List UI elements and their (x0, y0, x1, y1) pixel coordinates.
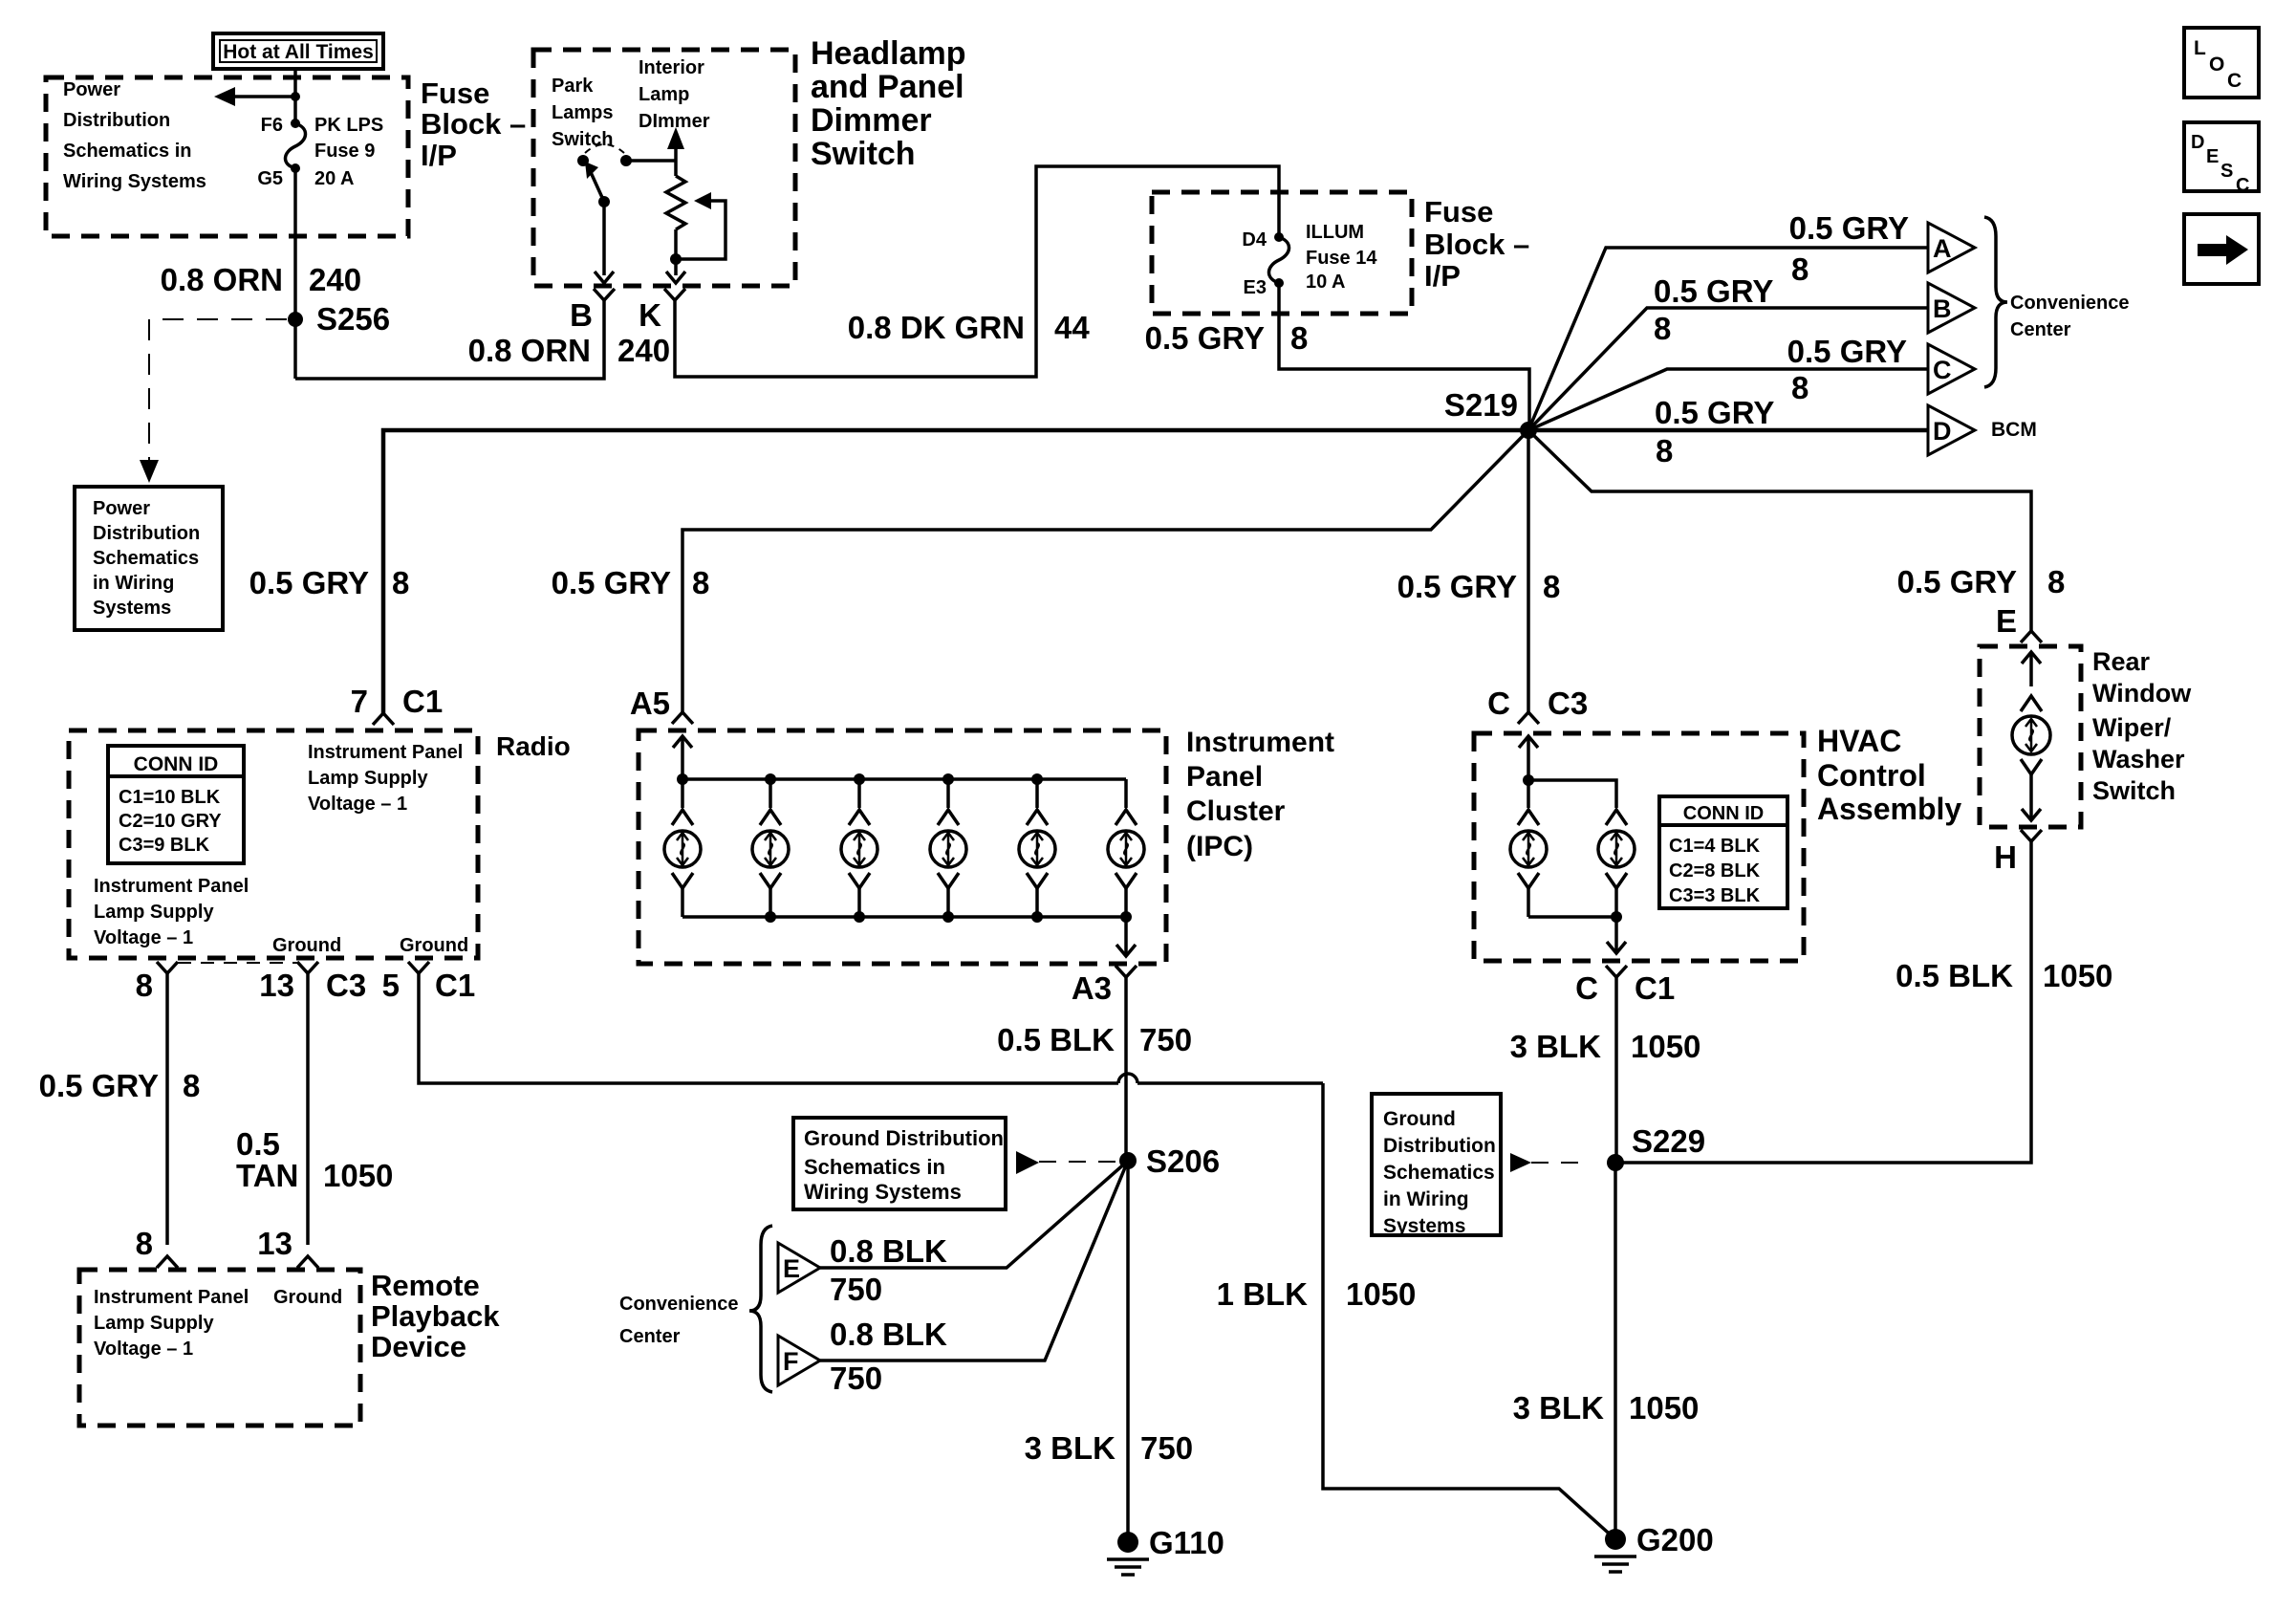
svg-text:Schematics in: Schematics in (63, 141, 192, 162)
svg-text:10 A: 10 A (1306, 272, 1346, 293)
svg-text:D4: D4 (1242, 229, 1267, 250)
svg-text:F: F (783, 1347, 799, 1376)
svg-text:S206: S206 (1146, 1143, 1220, 1179)
svg-text:13: 13 (259, 968, 294, 1003)
pin E chevron (2021, 631, 2042, 642)
svg-text:20 A: 20 A (314, 168, 355, 189)
wire: S219 to IPC A5 (682, 430, 1528, 712)
svg-text:Remote: Remote (371, 1269, 480, 1302)
svg-text:8: 8 (1654, 311, 1671, 346)
wire: S206 down to G110 (1126, 1161, 1130, 1542)
svg-text:I/P: I/P (1424, 259, 1461, 293)
svg-text:L: L (2194, 37, 2206, 59)
svg-text:C1: C1 (435, 968, 475, 1003)
svg-text:750: 750 (830, 1361, 882, 1396)
svg-text:750: 750 (1140, 1430, 1193, 1466)
fuse ILLUM Fuse 14 10A (1274, 232, 1284, 242)
svg-text:DImmer: DImmer (639, 111, 710, 132)
svg-text:B: B (1933, 294, 1952, 323)
svg-text:G110: G110 (1149, 1525, 1224, 1560)
conn id table (radio) (108, 746, 244, 863)
svg-text:C: C (1933, 356, 1952, 384)
IPC lamp 4 (930, 779, 966, 917)
svg-text:Instrument Panel: Instrument Panel (94, 1287, 249, 1308)
svg-text:Assembly: Assembly (1817, 792, 1961, 826)
wire: H down and left to S229 (1616, 841, 2031, 1163)
wire: radio pin 13 down to remote playback 13 (306, 973, 310, 1245)
dashed reference arrow from S256 to power distribution box (149, 318, 287, 320)
svg-text:PK LPS: PK LPS (314, 115, 383, 136)
component title: Rear Window Wiper/Washer Switch (2092, 647, 2192, 805)
svg-text:and Panel: and Panel (811, 69, 964, 105)
svg-text:D: D (1933, 417, 1952, 446)
svg-text:Systems: Systems (1383, 1215, 1465, 1237)
svg-text:1 BLK: 1 BLK (1217, 1276, 1309, 1312)
potentiometer: interior lamp dimmer (667, 127, 684, 149)
wire: E to S206 (820, 1161, 1128, 1268)
svg-text:8: 8 (1656, 433, 1673, 468)
svg-text:Systems: Systems (93, 598, 171, 619)
wire: park lamps switch down to B (602, 202, 606, 275)
bottom tie bar (1528, 915, 1616, 919)
connector C triangle (1928, 344, 1975, 394)
LOC box (2184, 28, 2259, 98)
svg-text:E3: E3 (1244, 277, 1267, 298)
svg-text:0.5 GRY: 0.5 GRY (1397, 569, 1517, 604)
pin B chevron (594, 289, 615, 300)
svg-text:240: 240 (309, 262, 361, 297)
svg-text:S219: S219 (1444, 387, 1518, 423)
svg-text:0.5 GRY: 0.5 GRY (1654, 273, 1773, 309)
IPC lamp 1 (664, 779, 701, 917)
svg-text:8: 8 (1791, 370, 1809, 405)
rear wiper lamp (2012, 696, 2050, 786)
svg-text:ILLUM: ILLUM (1306, 222, 1364, 243)
svg-text:8: 8 (392, 565, 409, 600)
svg-text:HVAC: HVAC (1817, 724, 1901, 758)
svg-text:C: C (2236, 175, 2249, 196)
splice node S229 (1607, 1154, 1624, 1171)
svg-text:Instrument Panel: Instrument Panel (94, 876, 249, 897)
svg-text:Fuse: Fuse (1424, 195, 1493, 229)
svg-text:8: 8 (183, 1068, 200, 1103)
dashed reference arrow to S206 (1016, 1151, 1039, 1174)
svg-text:240: 240 (617, 333, 670, 368)
value label: PK LPS Fuse 9 20 A (314, 115, 383, 189)
pin H chevron below box (2021, 830, 2042, 841)
svg-text:TAN: TAN (236, 1158, 298, 1193)
svg-text:0.8 ORN: 0.8 ORN (468, 333, 591, 368)
wire: S219 to connector B (1528, 308, 1928, 430)
svg-text:CONN ID: CONN ID (134, 753, 219, 775)
svg-text:F6: F6 (261, 115, 283, 136)
wire: dimmer down to K (674, 259, 678, 275)
IPC lamp 6 (1108, 779, 1144, 917)
svg-text:Radio: Radio (496, 731, 571, 761)
label: Interior Lamp Dimmer (639, 57, 710, 132)
svg-text:0.5: 0.5 (236, 1126, 280, 1162)
svg-text:C1: C1 (1635, 970, 1675, 1006)
ground G200 (1594, 1522, 1714, 1572)
svg-text:Wiring Systems: Wiring Systems (63, 171, 206, 192)
component box: rear window wiper/washer switch (1980, 646, 2081, 827)
svg-text:G5: G5 (257, 168, 283, 189)
svg-text:Cluster: Cluster (1186, 795, 1286, 827)
svg-text:Schematics: Schematics (1383, 1162, 1495, 1184)
svg-text:Voltage – 1: Voltage – 1 (94, 1339, 193, 1360)
svg-text:Voltage – 1: Voltage – 1 (94, 927, 193, 948)
svg-text:in Wiring: in Wiring (1383, 1188, 1469, 1210)
svg-text:Lamp Supply: Lamp Supply (94, 902, 214, 923)
wire: radio pin 5 ground to S206 trunk (419, 973, 1118, 1083)
exit arrow down inside IPC (1124, 917, 1128, 954)
wire: Hot at All Times feed down into fuse block (293, 69, 297, 123)
svg-text:0.5 GRY: 0.5 GRY (249, 565, 369, 600)
component box: HVAC control assembly (1474, 733, 1804, 961)
svg-text:0.8 BLK: 0.8 BLK (830, 1233, 947, 1269)
svg-text:0.5 GRY: 0.5 GRY (1145, 320, 1265, 356)
label: Instrument Panel Lamp Supply Voltage - 1 / Ground (94, 1287, 342, 1360)
svg-text:E: E (2206, 146, 2219, 167)
svg-text:S229: S229 (1632, 1123, 1705, 1159)
svg-text:8: 8 (692, 565, 709, 600)
value label: ILLUM Fuse 14 10 A (1306, 222, 1377, 293)
svg-text:0.8 DK GRN: 0.8 DK GRN (848, 310, 1025, 345)
svg-text:CONN ID: CONN ID (1683, 803, 1764, 824)
pin A5 chevron into IPC (672, 712, 693, 724)
connector D triangle (1928, 405, 1975, 455)
svg-text:in Wiring: in Wiring (93, 573, 174, 594)
wire: fuse E3 down to S219 (1279, 283, 1529, 430)
svg-text:750: 750 (1139, 1022, 1192, 1057)
fuse block I/P dashed box (left) (46, 77, 408, 236)
svg-text:Distribution: Distribution (93, 523, 200, 544)
component box: fuse block I/P (1152, 192, 1412, 314)
svg-text:0.5 BLK: 0.5 BLK (1895, 958, 2013, 993)
svg-text:O: O (2209, 54, 2224, 76)
svg-text:Window: Window (2092, 679, 2192, 708)
svg-text:S256: S256 (316, 301, 390, 337)
junction dot (1523, 774, 1534, 786)
bus junction dots (677, 773, 688, 785)
svg-text:Distribution: Distribution (63, 110, 170, 131)
connector E triangle (convenience center) (778, 1243, 820, 1293)
wire: radio pin 8 down to remote playback 8 (165, 973, 169, 1245)
wire: 1 BLK 1050 trunk to G200 (1323, 1083, 1615, 1539)
svg-text:3 BLK: 3 BLK (1025, 1430, 1116, 1466)
svg-text:Voltage – 1: Voltage – 1 (308, 794, 407, 815)
svg-text:8: 8 (136, 1226, 153, 1261)
pin K chevron (664, 289, 685, 300)
branch to right lamp (1528, 780, 1616, 808)
svg-text:Fuse: Fuse (421, 76, 489, 110)
svg-text:G200: G200 (1636, 1522, 1714, 1557)
IPC lamp 5 (1019, 779, 1055, 917)
svg-text:C2=10 GRY: C2=10 GRY (119, 811, 222, 832)
svg-text:C: C (1487, 686, 1510, 721)
component box: remote playback device (79, 1270, 360, 1426)
component title: Instrument Panel Cluster (IPC) (1186, 727, 1334, 862)
label: Instrument Panel Lamp Supply Voltage - 1 (pin 7) (308, 742, 463, 815)
svg-text:I/P: I/P (421, 139, 457, 172)
entry arrow up inside IPC (681, 738, 684, 779)
IPC lamp 3 (841, 779, 877, 917)
svg-text:Switch: Switch (811, 136, 916, 172)
wire: HVAC C1 down to S229 (1614, 977, 1618, 1163)
svg-text:C3=9 BLK: C3=9 BLK (119, 835, 210, 856)
pin 5 C1 chevron below radio (408, 962, 429, 973)
svg-text:Ground: Ground (272, 935, 341, 956)
svg-text:Block –: Block – (1424, 228, 1529, 261)
svg-text:Ground: Ground (400, 935, 468, 956)
svg-text:Schematics in: Schematics in (804, 1155, 945, 1179)
svg-text:C3: C3 (326, 968, 366, 1003)
wire: S219 to connector A (1528, 248, 1928, 430)
splice node S256 (288, 312, 303, 327)
svg-text:0.5 GRY: 0.5 GRY (1787, 334, 1907, 369)
svg-text:Power: Power (93, 498, 150, 519)
switch: park lamps switch blade (577, 155, 589, 166)
svg-text:Ground Distribution: Ground Distribution (804, 1126, 1004, 1150)
component box: radio (69, 730, 478, 958)
svg-text:Block –: Block – (421, 107, 526, 141)
wire: K to ILLUM fuse D4 (675, 166, 1279, 377)
DESC box (2184, 122, 2259, 196)
svg-text:S: S (2220, 161, 2233, 182)
svg-text:Convenience: Convenience (619, 1294, 738, 1315)
wire: S219 to connector D (1528, 428, 1928, 433)
svg-text:1050: 1050 (1629, 1390, 1699, 1426)
exit arrow down inside box (2029, 786, 2033, 818)
component box: headlamp dimmer switch (533, 50, 795, 286)
svg-text:Ground: Ground (273, 1287, 342, 1308)
pin 13 C3 chevron below radio (297, 962, 318, 973)
entry arrow up inside HVAC (1527, 738, 1530, 780)
svg-text:E: E (783, 1254, 800, 1283)
svg-text:8: 8 (1543, 569, 1560, 604)
fuse F9 PK LPS 20A (291, 119, 300, 128)
svg-text:Panel: Panel (1186, 761, 1263, 793)
component title: Headlamp and Panel Dimmer Switch (811, 35, 966, 172)
svg-text:C1: C1 (402, 684, 443, 719)
wire: S229 down to G200 (1614, 1163, 1617, 1539)
wire: A3 down to S206 (1124, 977, 1128, 1161)
HVAC lamp 2 (1598, 810, 1635, 917)
label box "Hot at All Times" (213, 33, 383, 69)
svg-text:3 BLK: 3 BLK (1513, 1390, 1605, 1426)
svg-text:Fuse 14: Fuse 14 (1306, 248, 1377, 269)
svg-text:Control: Control (1817, 758, 1926, 793)
svg-text:E: E (1996, 603, 2017, 639)
svg-text:Dimmer: Dimmer (811, 102, 932, 139)
entry arrow up inside box (2029, 654, 2033, 686)
brace: convenience center group (left) (749, 1226, 772, 1392)
pin C C3 chevron into HVAC (1518, 712, 1539, 724)
component box: instrument panel cluster (639, 730, 1166, 964)
svg-text:0.8 ORN: 0.8 ORN (161, 262, 283, 297)
svg-text:8: 8 (1791, 251, 1809, 287)
junction dot at feed tap (291, 92, 300, 101)
hop over A3 wire (1118, 1074, 1137, 1083)
pin C C1 chevron below HVAC (1606, 966, 1627, 977)
svg-text:Washer: Washer (2092, 745, 2185, 773)
svg-text:0.8 BLK: 0.8 BLK (830, 1317, 947, 1352)
reference box: Ground Distribution Schematics in Wiring Systems (793, 1118, 1006, 1209)
svg-text:Switch: Switch (2092, 776, 2176, 805)
svg-text:0.5 GRY: 0.5 GRY (39, 1068, 159, 1103)
svg-text:Schematics: Schematics (93, 548, 199, 569)
svg-text:Rear: Rear (2092, 647, 2151, 676)
label: Park Lamps Switch (552, 76, 613, 150)
svg-text:Lamp: Lamp (639, 84, 689, 105)
label: Instrument Panel Lamp Supply Voltage - 1 (pin 8) (94, 876, 249, 948)
svg-text:A: A (1933, 234, 1952, 263)
wire: F to S206 (820, 1161, 1128, 1361)
forward arrow box (2184, 214, 2259, 284)
svg-text:0.5 GRY: 0.5 GRY (552, 565, 671, 600)
svg-text:Interior: Interior (639, 57, 704, 78)
pin 7 C1 chevron into radio (373, 713, 394, 725)
svg-text:Wiring Systems: Wiring Systems (804, 1180, 962, 1204)
svg-text:(IPC): (IPC) (1186, 831, 1253, 862)
component title: Fuse Block - I/P (421, 76, 526, 172)
svg-text:1050: 1050 (1346, 1276, 1416, 1312)
svg-text:5: 5 (382, 968, 400, 1003)
svg-text:Fuse 9: Fuse 9 (314, 141, 375, 162)
svg-text:C3=3 BLK: C3=3 BLK (1669, 885, 1761, 906)
svg-text:A3: A3 (1072, 970, 1112, 1006)
HVAC lamp 1 (1510, 780, 1547, 917)
connector A triangle (1928, 223, 1975, 272)
svg-text:A5: A5 (630, 686, 670, 721)
brace: convenience center group (1984, 217, 2007, 387)
svg-text:0.5 GRY: 0.5 GRY (1897, 564, 2017, 599)
connector B triangle (1928, 283, 1975, 333)
conn id table (HVAC) (1659, 796, 1787, 908)
component title: Remote Playback Device (371, 1269, 500, 1363)
svg-text:13: 13 (257, 1226, 292, 1261)
reference box: Ground Distribution Schematics in Wiring Systems (1372, 1094, 1501, 1237)
svg-text:Instrument: Instrument (1186, 727, 1334, 758)
wire: S219 to connector C (1528, 369, 1928, 430)
main wire: radio branch corner to S219 (383, 430, 1528, 713)
exit arrow down inside HVAC (1614, 917, 1618, 951)
svg-text:H: H (1994, 839, 2017, 875)
IPC lamp 2 (752, 779, 789, 917)
svg-text:BCM: BCM (1991, 419, 2037, 441)
svg-text:Lamp Supply: Lamp Supply (94, 1313, 214, 1334)
pin 13 chevron into remote playback (297, 1256, 318, 1268)
reference box: Power Distribution Schematics in Wiring Systems (75, 487, 223, 630)
arrow: feed to power distribution schematics (left) (229, 95, 295, 98)
svg-text:7: 7 (351, 684, 368, 719)
component title: HVAC Control Assembly (1817, 724, 1961, 826)
wire: dimmer top contact (626, 159, 676, 163)
dashed reference arrow to S229 (1510, 1153, 1531, 1172)
top bus bar (682, 777, 1126, 781)
svg-text:Playback: Playback (371, 1299, 500, 1333)
wire: S219 to rear window wiper switch E (1528, 430, 2031, 631)
wire: S256 to headlamp switch pin B (295, 299, 604, 379)
svg-text:0.5 BLK: 0.5 BLK (997, 1022, 1115, 1057)
svg-text:8: 8 (1290, 320, 1308, 356)
svg-text:0.5 GRY: 0.5 GRY (1655, 395, 1774, 430)
pin 8 chevron into remote playback (157, 1256, 178, 1268)
svg-text:Lamps: Lamps (552, 102, 613, 123)
text: Power Distribution Schematics in Wiring Systems (pointer note) (63, 79, 206, 192)
svg-text:8: 8 (136, 968, 153, 1003)
svg-text:Center: Center (619, 1326, 681, 1347)
svg-text:750: 750 (830, 1272, 882, 1307)
svg-text:1050: 1050 (1631, 1029, 1700, 1064)
thin dashed tie between pins 8 and 13 (178, 962, 297, 964)
svg-text:8: 8 (2047, 564, 2065, 599)
svg-text:D: D (2191, 132, 2204, 153)
svg-text:3 BLK: 3 BLK (1510, 1029, 1602, 1064)
svg-text:Device: Device (371, 1330, 466, 1363)
svg-text:Headlamp: Headlamp (811, 35, 966, 72)
pin A3 chevron below IPC (1116, 966, 1137, 977)
splice node S206 (1119, 1152, 1137, 1169)
svg-text:Instrument Panel: Instrument Panel (308, 742, 463, 763)
svg-text:Power: Power (63, 79, 120, 100)
svg-text:0.5 GRY: 0.5 GRY (1789, 210, 1909, 246)
svg-text:Lamp Supply: Lamp Supply (308, 768, 428, 789)
svg-text:K: K (639, 297, 661, 333)
component title: Fuse Block - I/P (1424, 195, 1529, 293)
svg-text:C: C (1575, 970, 1598, 1006)
svg-text:Distribution: Distribution (1383, 1135, 1496, 1157)
wiper arm of dimmer (676, 201, 726, 259)
svg-text:C1=4 BLK: C1=4 BLK (1669, 836, 1761, 857)
svg-text:Park: Park (552, 76, 594, 97)
svg-text:1050: 1050 (2043, 958, 2112, 993)
svg-text:Switch: Switch (552, 129, 613, 150)
splice node S219 (1520, 422, 1537, 439)
svg-text:B: B (570, 297, 593, 333)
wire: S219 down to HVAC C3 (1527, 430, 1530, 712)
svg-text:1050: 1050 (323, 1158, 393, 1193)
svg-text:44: 44 (1054, 310, 1090, 345)
svg-text:C3: C3 (1548, 686, 1588, 721)
svg-text:Center: Center (2010, 319, 2071, 340)
wire: fuse G5 down to S256 (293, 168, 297, 379)
svg-text:Ground: Ground (1383, 1108, 1456, 1130)
svg-text:Wiper/: Wiper/ (2092, 713, 2172, 742)
pin 8 chevron below radio (157, 962, 178, 973)
ground G110 (1107, 1525, 1224, 1575)
svg-text:C1=10 BLK: C1=10 BLK (119, 787, 221, 808)
svg-text:C: C (2227, 70, 2242, 92)
svg-text:C2=8 BLK: C2=8 BLK (1669, 860, 1761, 882)
svg-text:Hot at All Times: Hot at All Times (223, 41, 374, 63)
bottom bus bar (682, 915, 1126, 919)
svg-text:Convenience: Convenience (2010, 293, 2129, 314)
connector F triangle (convenience center) (778, 1336, 820, 1385)
